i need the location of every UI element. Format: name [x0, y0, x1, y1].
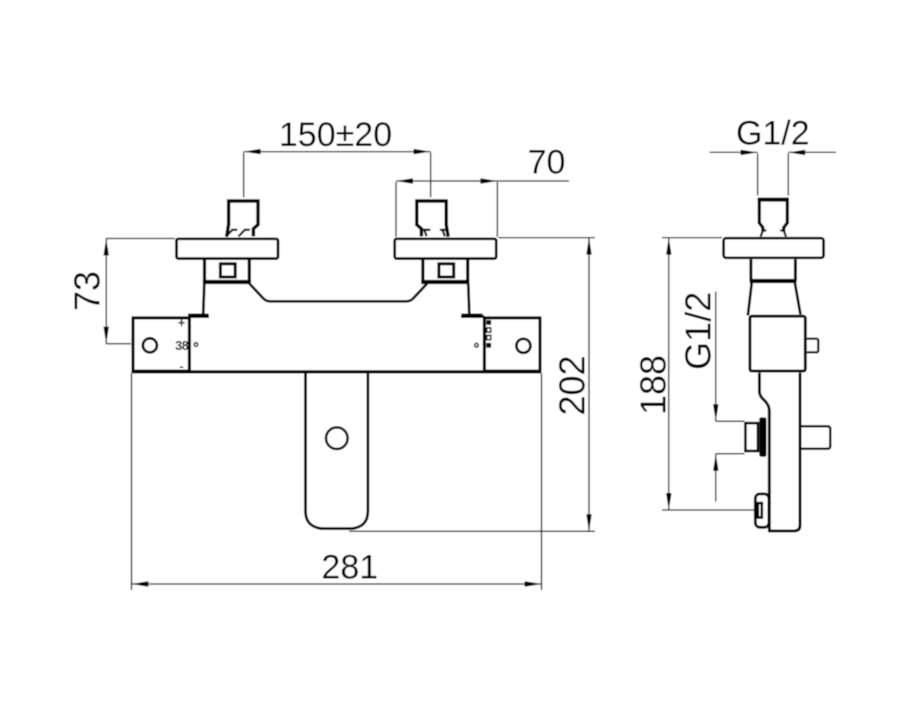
dim G1/2 ext lines: [758, 153, 789, 195]
right union top nut thread marks: [422, 230, 446, 236]
arrow 202 top: [586, 238, 591, 255]
arrow 188 bottom: [666, 493, 671, 510]
arrow 150 left: [244, 149, 261, 154]
left boss foot tick: [188, 313, 209, 317]
dim 202 ext lines: [349, 238, 595, 532]
dim 188 ext lines: [662, 238, 755, 510]
degree symbol: [194, 343, 198, 347]
small circle left of right box: [475, 344, 479, 348]
dim 150 line: [244, 151, 431, 153]
left union top nut thread marks: [226, 230, 250, 237]
arrow 281 right: [525, 581, 542, 586]
right union lower nut: [421, 260, 469, 282]
svg-text:73: 73: [67, 271, 108, 311]
arrow 188 top: [666, 238, 671, 255]
dim 202 line: [588, 238, 590, 532]
side cone section: [748, 283, 801, 316]
right union top nut: [417, 201, 448, 237]
dim 70 ext lines: [396, 182, 497, 237]
dim 150 ext lines: [244, 153, 431, 198]
arrow 73 bottom: [104, 327, 109, 344]
side flange: [724, 238, 824, 258]
right wall flange: [395, 239, 497, 259]
body bar top edge segments: [190, 315, 485, 318]
left knob box: [133, 318, 189, 371]
dim G1/2 inner ext lines: [716, 421, 745, 454]
left knob circle: [143, 338, 157, 352]
arrow G12 inner up: [713, 454, 718, 471]
arrowheads front: [104, 149, 592, 587]
left union top nut: [227, 201, 258, 237]
svg-text:281: 281: [321, 549, 378, 587]
bridge between bosses: [249, 284, 427, 302]
dim G1/2 inner line lower: [715, 454, 717, 502]
left union lower nut: [203, 260, 251, 282]
side column below block: [759, 373, 800, 531]
dim 188 line: [668, 238, 670, 510]
arrow 70 right: [480, 178, 497, 183]
side hose outlet plate: [759, 417, 766, 456]
side upper right protrusion: [807, 339, 819, 353]
svg-text:188: 188: [633, 355, 674, 415]
dim G1/2 top lines: [710, 151, 836, 153]
dim 281 ext lines: [132, 374, 542, 591]
left wall flange: [177, 239, 279, 259]
svg-text:G1/2: G1/2: [736, 115, 810, 153]
right inlet boss outer edge: [468, 284, 469, 314]
side bottom spout slot: [758, 503, 762, 517]
arrow 202 bottom: [586, 514, 591, 531]
svg-text:+: +: [178, 315, 186, 330]
dim 73 ext lines: [106, 239, 175, 344]
right boss foot tick: [461, 313, 482, 317]
svg-text:70: 70: [528, 144, 566, 182]
body bar bottom edge: [132, 370, 542, 373]
spout: [306, 373, 368, 529]
left inlet boss outer edge: [203, 284, 204, 314]
side hose outlet rect: [745, 423, 758, 451]
svg-text:38: 38: [175, 339, 188, 353]
right knob box: [484, 318, 540, 371]
svg-text:150±20: 150±20: [279, 116, 392, 154]
spout hole: [326, 427, 348, 449]
dim 70 line: [396, 180, 569, 182]
dim 73 line: [105, 239, 107, 344]
right knob circle: [516, 339, 530, 353]
svg-text:G1/2: G1/2: [678, 292, 719, 370]
arrow 150 right: [414, 149, 431, 154]
arrow G12 inner down: [713, 404, 718, 421]
side lower right protrusion: [801, 426, 830, 449]
arrow 70 left: [396, 178, 413, 183]
arrowheads side: [666, 150, 805, 510]
indicator squares: [486, 320, 491, 348]
arrow G12 left: [741, 150, 758, 155]
svg-text:-: -: [179, 359, 183, 374]
arrow 73 top: [104, 239, 109, 256]
side body block: [750, 316, 805, 371]
dim G1/2 inner line upper: [715, 292, 717, 422]
dim 281 line: [132, 583, 542, 585]
side bottom spout bump: [755, 494, 769, 527]
arrow G12 right: [788, 150, 805, 155]
side nipple: [758, 199, 790, 237]
svg-text:202: 202: [552, 355, 593, 415]
side union nut: [750, 259, 797, 281]
arrow 281 left: [132, 581, 149, 586]
